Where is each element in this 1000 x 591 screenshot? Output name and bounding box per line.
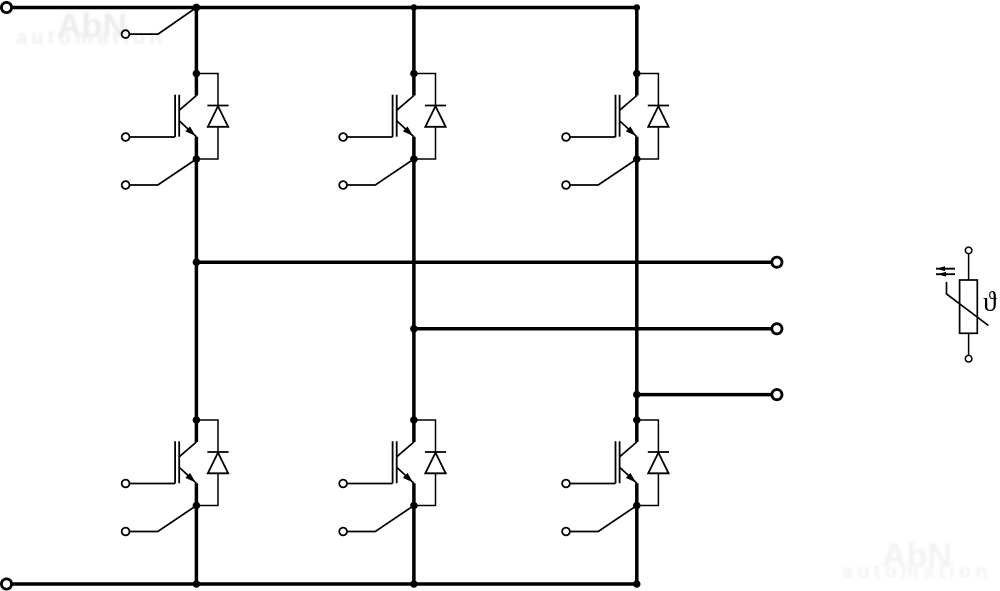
wire: thermistor top lead — [968, 254, 970, 280]
svg-text:ϑ: ϑ — [983, 286, 997, 317]
node: emitter junction Q6 — [633, 502, 641, 510]
node: emitter junction Q3 — [633, 155, 641, 163]
wire: leg 2 upper collector segment — [412, 8, 416, 96]
pin: gate of Q5 — [339, 480, 347, 488]
wire: diode D3 bottom branch — [637, 127, 659, 159]
node: DC+ bus tap leg 3 — [634, 4, 641, 11]
wire: phase 1 output — [196, 260, 771, 264]
diode D6 — [648, 452, 669, 473]
node: phase 3 output junction — [633, 391, 641, 399]
wire: leg 3 midpoint segment — [635, 137, 639, 442]
wire: leg 2 lower emitter segment — [412, 483, 416, 584]
pin: auxiliary emitter of Q2 — [339, 181, 347, 189]
wire: diode D2 top branch — [414, 74, 436, 106]
wire: diode D1 top branch — [196, 74, 218, 106]
thermistor R7 body — [960, 280, 978, 333]
wire: phase 3 output — [637, 393, 772, 397]
node: collector junction Q6 — [633, 416, 641, 424]
node: DC- bus tap leg 3 — [633, 580, 640, 587]
diode D2 — [425, 106, 446, 127]
thermistor temperature arrows — [936, 266, 955, 276]
wire: leg 3 lower emitter segment — [635, 483, 639, 584]
pin: gate of Q1 — [122, 133, 130, 141]
terminal: DC+ (top left) — [1, 2, 11, 12]
wire: phase 2 output — [414, 327, 772, 331]
wire: diode D1 bottom branch — [196, 127, 218, 159]
wire: leg 2 midpoint segment — [412, 137, 416, 442]
node: emitter junction Q1 — [193, 155, 201, 163]
terminal: phase 1 output — [772, 257, 782, 267]
wire: gate lead of Q6 — [570, 483, 616, 485]
node: collector junction Q5 — [410, 416, 418, 424]
wire: DC- bus — [11, 582, 638, 586]
wire: diode D2 bottom branch — [414, 127, 436, 159]
transistor Q1 (IGBT) — [175, 95, 196, 137]
pin: auxiliary emitter of Q1 — [122, 181, 130, 189]
node: emitter junction Q4 — [193, 502, 201, 510]
diode D1 — [207, 106, 228, 127]
pin: auxiliary emitter of Q5 — [339, 528, 347, 536]
node: emitter junction Q2 — [410, 155, 418, 163]
terminal: thermistor bottom — [965, 355, 972, 362]
wire: auxiliary emitter lead of Q6 — [570, 506, 637, 532]
node: collector junction Q1 — [193, 70, 201, 78]
thermistor R7 NTC mark — [947, 282, 989, 326]
wire: diode D3 top branch — [637, 74, 659, 106]
wire: auxiliary emitter lead of Q5 — [347, 506, 414, 532]
terminal: DC- (bottom left) — [1, 579, 11, 589]
node: DC- bus tap leg 1 — [193, 580, 200, 587]
wire: diode D5 top branch — [414, 420, 436, 452]
node: DC+ bus tap leg 2 — [411, 4, 418, 11]
wire: leg 1 upper collector segment — [195, 8, 199, 96]
diode D4 — [207, 452, 228, 473]
wire: leg 1 lower emitter segment — [195, 483, 199, 584]
pin: gate of Q2 — [339, 133, 347, 141]
terminal: phase 2 output — [772, 324, 782, 334]
node: collector junction Q4 — [193, 416, 201, 424]
wire: diode D6 top branch — [637, 420, 659, 452]
node: DC+ bus tap leg 1 — [193, 4, 201, 12]
terminal: thermistor top — [965, 247, 972, 254]
wire: diode D4 top branch — [196, 420, 218, 452]
transistor Q4 (IGBT) — [175, 441, 196, 483]
wire: leg 3 upper collector segment — [635, 8, 639, 96]
wire: gate lead of Q1 — [130, 136, 176, 138]
wire: DC+ bus — [11, 6, 638, 10]
wire: gate lead of Q2 — [347, 136, 393, 138]
pin: gate of Q3 — [562, 133, 570, 141]
pin: auxiliary emitter of Q6 — [562, 528, 570, 536]
wire: auxiliary emitter lead of Q4 — [130, 506, 197, 532]
pin: gate of Q6 — [562, 480, 570, 488]
node: emitter junction Q5 — [410, 502, 418, 510]
wire: gate lead of Q3 — [570, 136, 616, 138]
diode D5 — [425, 452, 446, 473]
wire: gate lead of Q5 — [347, 483, 393, 485]
wire: diode D4 bottom branch — [196, 473, 218, 505]
wire: gate lead of Q4 — [130, 483, 176, 485]
wire: auxiliary emitter lead of Q1 — [130, 159, 197, 185]
wire: DC+ auxiliary lead — [129, 8, 196, 35]
pin: auxiliary emitter of Q3 — [562, 181, 570, 189]
wire: diode D5 bottom branch — [414, 473, 436, 505]
node: phase 1 output junction — [193, 258, 201, 266]
pin: auxiliary emitter of Q4 — [122, 528, 130, 536]
node: phase 2 output junction — [410, 325, 418, 333]
transistor Q3 (IGBT) — [616, 95, 637, 137]
pin: gate of Q4 — [122, 480, 130, 488]
watermark AbN logo top-left — [57, 7, 127, 46]
node: DC- bus tap leg 2 — [410, 580, 417, 587]
transistor Q5 (IGBT) — [393, 441, 414, 483]
transistor Q2 (IGBT) — [393, 95, 414, 137]
wire: thermistor bottom lead — [968, 333, 970, 355]
node: collector junction Q3 — [633, 70, 641, 78]
wire: diode D6 bottom branch — [637, 473, 659, 505]
pin: DC+ auxiliary — [122, 30, 130, 38]
wire: auxiliary emitter lead of Q2 — [347, 159, 414, 185]
transistor Q6 (IGBT) — [616, 441, 637, 483]
wire: auxiliary emitter lead of Q3 — [570, 159, 637, 185]
node: collector junction Q2 — [410, 70, 418, 78]
watermark AbN logo bottom-right — [882, 537, 952, 576]
wire: leg 1 midpoint segment — [195, 137, 199, 442]
terminal: phase 3 output — [772, 390, 782, 400]
diode D3 — [648, 106, 669, 127]
